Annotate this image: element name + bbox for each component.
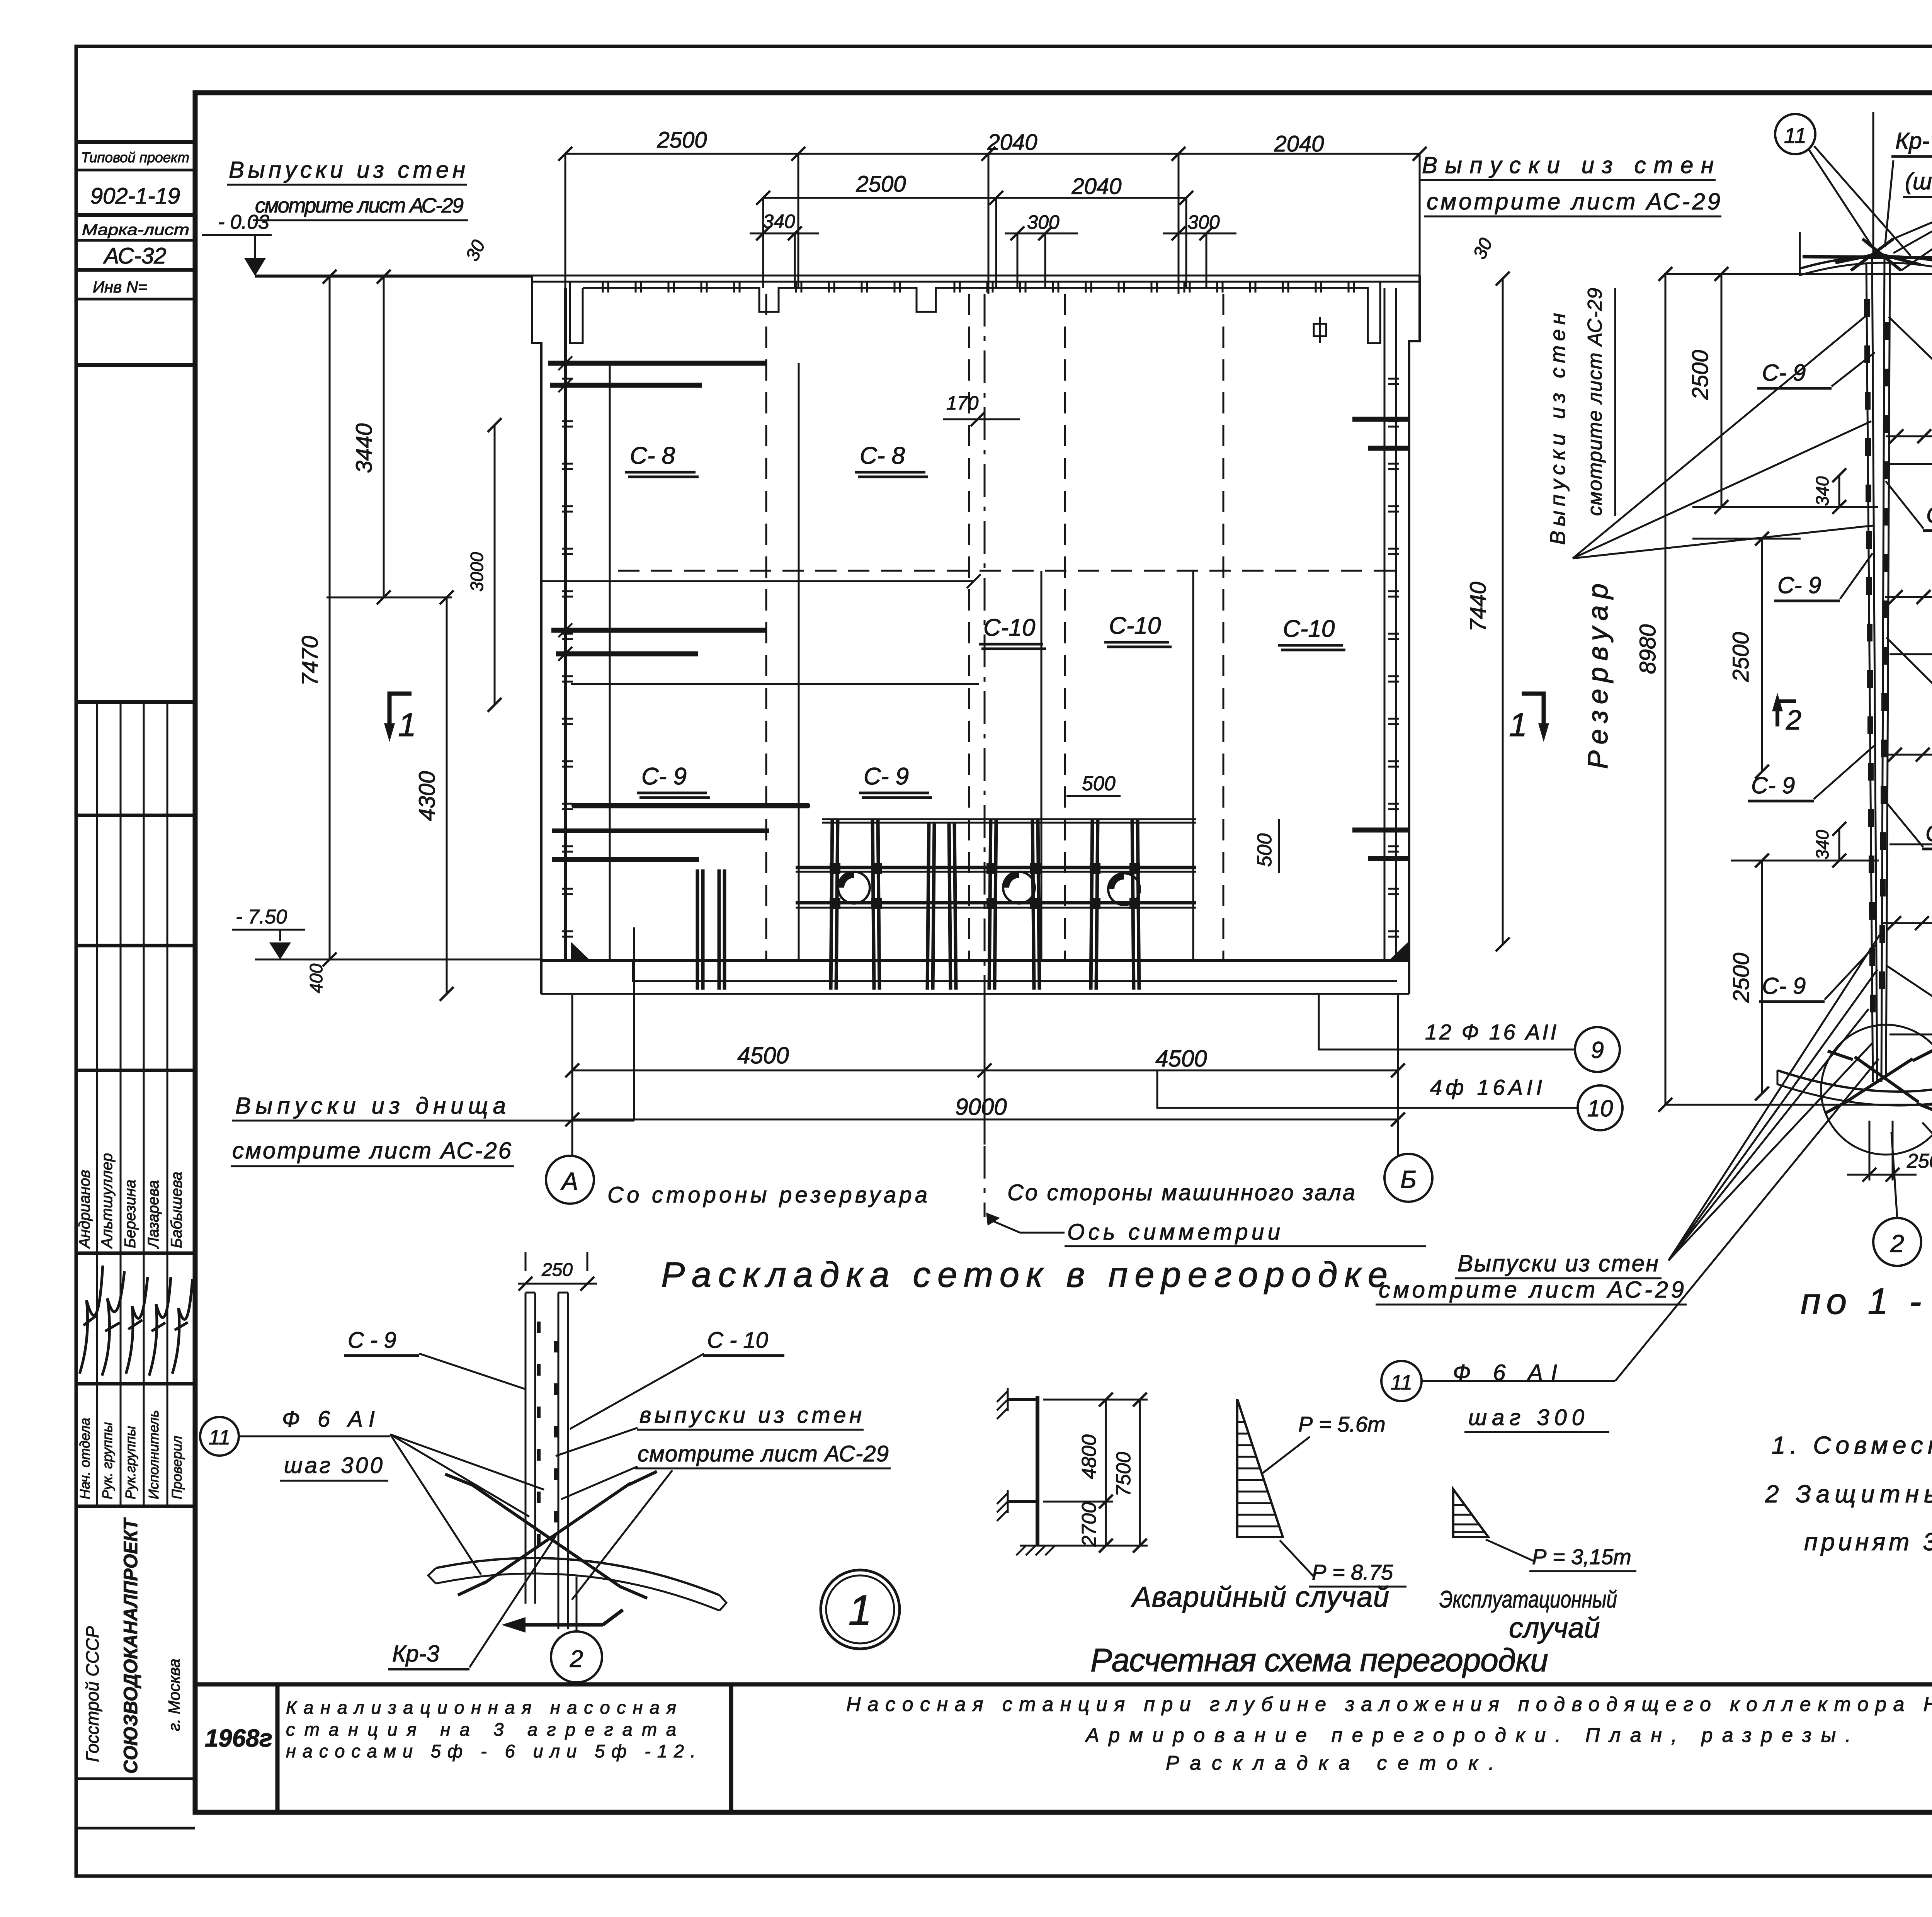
svg-text:2040: 2040: [1274, 131, 1324, 156]
svg-text:Выпуски из стен: Выпуски из стен: [1458, 1250, 1658, 1276]
svg-text:Андрианов: Андрианов: [76, 1170, 93, 1249]
svg-text:Нач. отдела: Нач. отдела: [77, 1418, 93, 1499]
svg-text:4300: 4300: [415, 771, 440, 821]
svg-text:С -10: С -10: [1925, 820, 1932, 846]
svg-text:9000: 9000: [955, 1094, 1007, 1120]
svg-text:300: 300: [1187, 211, 1220, 233]
svg-text:2: 2: [1786, 705, 1801, 736]
svg-text:4500: 4500: [1155, 1046, 1207, 1072]
svg-text:11: 11: [209, 1426, 230, 1449]
svg-text:Альтшуллер: Альтшуллер: [99, 1153, 116, 1249]
svg-text:2040: 2040: [987, 130, 1037, 155]
svg-text:11: 11: [1391, 1371, 1412, 1394]
svg-text:смотрите лист АС-29: смотрите лист АС-29: [1379, 1277, 1684, 1303]
svg-text:2500: 2500: [855, 172, 906, 197]
svg-text:Кр-3: Кр-3: [392, 1641, 439, 1667]
svg-text:2500: 2500: [1728, 632, 1753, 682]
svg-text:2: 2: [570, 1646, 583, 1672]
svg-text:Инв N=: Инв N=: [93, 278, 148, 296]
svg-text:Расчетная схема перегородки: Расчетная схема перегородки: [1090, 1642, 1548, 1678]
svg-text:смотрите лист АС-26: смотрите лист АС-26: [232, 1138, 512, 1163]
svg-text:500: 500: [1082, 772, 1116, 795]
svg-text:10: 10: [1587, 1095, 1613, 1121]
svg-text:Эксплуатационный: Эксплуатационный: [1439, 1586, 1617, 1613]
svg-text:Рук. группы: Рук. группы: [99, 1422, 115, 1499]
svg-text:Аварийный случай: Аварийный случай: [1131, 1581, 1389, 1613]
svg-text:АС-32: АС-32: [103, 243, 166, 269]
svg-text:С- 9: С- 9: [1777, 572, 1821, 598]
svg-text:г. Москва: г. Москва: [165, 1658, 183, 1731]
svg-text:смотрите лист АС-29: смотрите лист АС-29: [255, 194, 464, 217]
svg-text:Березина: Березина: [122, 1180, 139, 1248]
svg-text:340: 340: [1812, 830, 1832, 859]
svg-text:Госстрой СССР: Госстрой СССР: [82, 1626, 102, 1762]
svg-text:Бабышева: Бабышева: [168, 1172, 185, 1248]
svg-text:340: 340: [763, 211, 795, 232]
svg-text:902-1-19: 902-1-19: [90, 184, 180, 209]
svg-text:С-10: С-10: [983, 614, 1035, 641]
svg-text:2500: 2500: [1688, 350, 1713, 400]
svg-text:500: 500: [1253, 833, 1276, 867]
svg-text:2700: 2700: [1078, 1502, 1100, 1547]
svg-text:250: 250: [541, 1260, 573, 1280]
svg-text:3000: 3000: [467, 552, 487, 592]
svg-text:С- 9: С- 9: [1751, 772, 1795, 798]
svg-text:С - 10: С - 10: [707, 1328, 768, 1353]
svg-text:Выпуски из стен: Выпуски из стен: [229, 157, 465, 183]
svg-text:300: 300: [1027, 211, 1060, 233]
svg-text:250: 250: [1906, 1150, 1932, 1172]
svg-text:шаг 300: шаг 300: [284, 1453, 383, 1478]
svg-text:9: 9: [1591, 1037, 1604, 1063]
svg-text:смотрите лист АС-29: смотрите лист АС-29: [1427, 189, 1720, 214]
svg-text:С- 9: С- 9: [641, 763, 687, 790]
svg-text:СОЮЗВОДОКАНАЛПРОЕКТ: СОЮЗВОДОКАНАЛПРОЕКТ: [120, 1517, 141, 1774]
svg-text:2 Защитный слой бетона: 2 Защитный слой бетона для арматуры: [1765, 1480, 1932, 1508]
svg-text:Резервуар: Резервуар: [1583, 583, 1614, 769]
svg-text:С- 10: С- 10: [1926, 502, 1932, 528]
svg-text:Исполнитель: Исполнитель: [146, 1410, 162, 1499]
svg-text:2040: 2040: [1071, 174, 1121, 199]
svg-text:С-10: С-10: [1283, 616, 1335, 642]
svg-text:С- 8: С- 8: [860, 442, 905, 469]
svg-text:С-10: С-10: [1109, 612, 1161, 639]
svg-text:1: 1: [398, 707, 416, 743]
svg-text:Р = 5.6т: Р = 5.6т: [1298, 1412, 1386, 1436]
svg-text:8980: 8980: [1635, 624, 1660, 674]
svg-text:С- 9: С- 9: [864, 763, 909, 790]
svg-text:11: 11: [1784, 123, 1806, 148]
svg-text:Проверил: Проверил: [169, 1436, 185, 1500]
svg-text:случай: случай: [1509, 1612, 1600, 1644]
svg-text:7500: 7500: [1112, 1452, 1135, 1497]
svg-text:С- 9: С- 9: [1762, 973, 1806, 999]
svg-text:(шт - 6): (шт - 6): [1905, 168, 1932, 194]
svg-text:4500: 4500: [737, 1043, 789, 1068]
svg-text:2: 2: [1890, 1230, 1904, 1257]
svg-text:7470: 7470: [298, 636, 323, 685]
svg-text:- 7.50: - 7.50: [236, 906, 287, 928]
svg-text:С - 9: С - 9: [348, 1328, 396, 1353]
svg-text:1: 1: [848, 1587, 872, 1634]
svg-text:4800: 4800: [1078, 1434, 1100, 1479]
svg-text:Насосная станция при глуби: Насосная станция при глубине заложения п…: [846, 1693, 1932, 1716]
svg-text:Канализационная насосная: Канализационная насосная: [286, 1697, 676, 1718]
svg-text:Типовой проект: Типовой проект: [81, 150, 189, 165]
svg-text:3440: 3440: [352, 423, 377, 473]
svg-text:12 Ф 16 АII: 12 Ф 16 АII: [1425, 1020, 1556, 1044]
svg-text:7440: 7440: [1466, 582, 1491, 631]
svg-text:400: 400: [306, 963, 326, 993]
svg-text:А: А: [560, 1167, 578, 1195]
svg-text:Б: Б: [1400, 1165, 1417, 1193]
svg-text:340: 340: [1812, 476, 1832, 506]
svg-text:принят 30 мм.: принят 30 мм.: [1804, 1528, 1932, 1556]
svg-text:2500: 2500: [1729, 953, 1754, 1003]
svg-text:смотрите лист АС-29: смотрите лист АС-29: [638, 1441, 889, 1466]
svg-text:Со стороны машинного зала: Со стороны машинного зала: [1007, 1180, 1355, 1205]
svg-text:С- 9: С- 9: [1762, 360, 1806, 386]
svg-text:2500: 2500: [656, 128, 707, 153]
svg-text:1: 1: [1509, 707, 1527, 743]
svg-text:Ф 6 АI: Ф 6 АI: [282, 1407, 375, 1432]
svg-text:смотрите лист АС-29: смотрите лист АС-29: [1584, 288, 1606, 516]
svg-text:Р = 3,15т: Р = 3,15т: [1532, 1544, 1631, 1569]
svg-text:Марка-лист: Марка-лист: [82, 221, 189, 238]
svg-text:С- 8: С- 8: [630, 442, 675, 469]
svg-text:1968г: 1968г: [205, 1724, 272, 1752]
svg-text:Рук.группы: Рук.группы: [122, 1426, 138, 1499]
svg-text:170: 170: [946, 392, 979, 414]
svg-text:300: 300: [1930, 434, 1932, 463]
svg-text:Лазарева: Лазарева: [145, 1180, 162, 1249]
svg-text:300: 300: [1930, 595, 1932, 623]
svg-text:Кр- 3: Кр- 3: [1895, 128, 1932, 154]
